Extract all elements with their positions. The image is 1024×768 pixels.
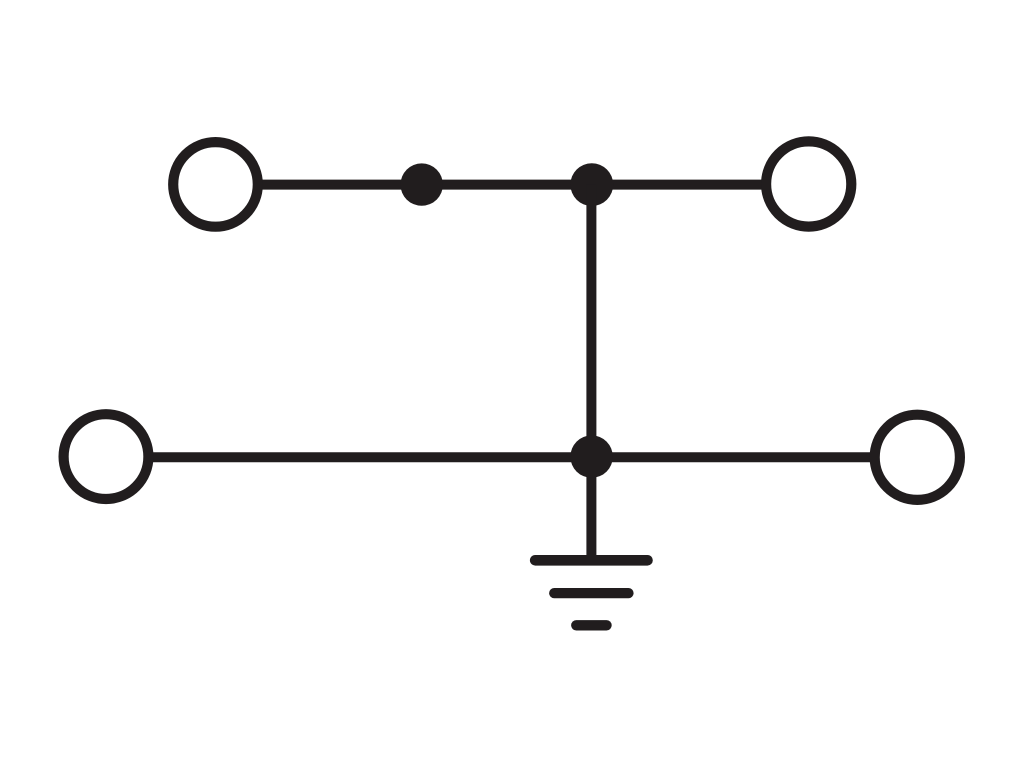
ground bar 1 bbox=[535, 555, 647, 566]
junction dot A (top net) bbox=[401, 163, 443, 205]
ground bar 3 bbox=[576, 620, 606, 630]
junction dot B (top net / vertical tie) bbox=[570, 163, 613, 206]
terminal circle top-right bbox=[766, 141, 851, 226]
ground bar 2 bbox=[554, 588, 628, 598]
junction dot C (bottom net / ground tie) bbox=[570, 435, 612, 477]
wire: top horizontal net bbox=[260, 180, 764, 190]
terminal circle bottom-left bbox=[64, 414, 149, 499]
wire: vertical tie from dot B to ground bbox=[586, 185, 596, 561]
terminal circle top-left bbox=[173, 142, 258, 227]
wire: bottom horizontal net bbox=[151, 452, 872, 462]
terminal circle bottom-right bbox=[875, 415, 960, 500]
